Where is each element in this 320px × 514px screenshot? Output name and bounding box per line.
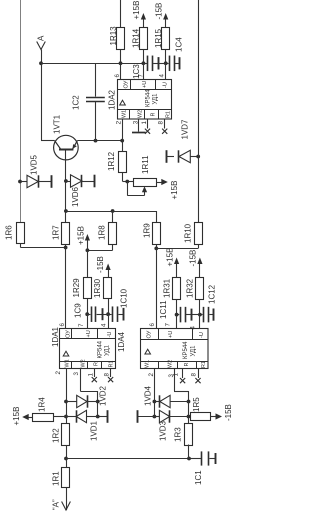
svg-text:-15В: -15В [96,256,105,273]
wire 1R30 to pin4 [108,299,110,314]
op-amp 1DA4 [141,329,209,370]
op-amp 1DA2 text KR544 [146,89,152,107]
svg-text:W1: W1 [145,360,151,368]
svg-text:1VD6: 1VD6 [71,186,80,207]
pin 8 1DA1 [104,373,111,377]
junction dot 1R3 bottom [187,457,191,461]
wire 1R15 bottom [165,50,167,63]
svg-text:R1: R1 [201,361,207,368]
svg-text:2: 2 [116,120,123,124]
junction dot rail/1VD5 [18,180,22,184]
transistor 1VT1 [54,135,79,160]
svg-text:1DA2: 1DA2 [108,89,117,110]
junction dot 1C3 left [142,61,146,65]
svg-text:1VD2: 1VD2 [99,385,108,406]
op-amp 1DA4 cell -U [199,332,205,338]
junction dot base/1VD6 [64,179,68,183]
wire to 1DA1 pin6 [65,248,67,329]
svg-text:+15В: +15В [12,407,21,426]
pin 4 1DA1 [101,323,108,327]
wire left rail [20,0,22,223]
junction dot VD1 left [64,415,68,419]
pin 2 1DA2 [116,120,123,124]
common bar (1C1) [215,453,217,464]
svg-text:1R8: 1R8 [98,225,107,240]
label 1VD7 [181,119,190,140]
junction dot 1R8 top [111,209,115,213]
svg-text:R: R [151,113,157,117]
label 1VD6 [71,186,80,207]
label 1R4 [38,397,47,412]
svg-text:1: 1 [173,373,180,377]
junction dot 1C2 bottom [94,139,98,143]
capacitor 1C2 [86,63,105,140]
svg-text:1R15: 1R15 [154,28,163,48]
resistor 1R32 [196,278,204,300]
wire base node line [66,211,157,223]
op-amp 1DA4 text UD1 [191,345,197,357]
svg-text:2: 2 [55,371,62,375]
label 1VT1 [53,114,62,134]
label 1R11 [141,155,150,174]
svg-text:W1: W1 [122,110,128,118]
junction dot VD2 left [64,400,68,404]
wire 1DA4 pin4 [199,315,201,329]
label -15V (1R32) [189,250,198,267]
op-amp 1DA2 [118,80,172,120]
svg-text:+U: +U [168,331,174,338]
wire +15V to 1R29 [87,250,89,277]
resistor 1R30 [104,278,112,299]
label 1DA1 [51,326,60,347]
junction dot pin6/nodeA [119,61,123,65]
pin 1 1DA2 [141,121,148,125]
op-amp 1DA4 cell W1 [145,360,151,368]
resistor 1R12 [119,152,127,173]
wire 1R9 bottom [156,245,158,248]
wire 1DA1 pin3 elbow [80,369,97,417]
svg-text:+15В: +15В [132,1,141,20]
pin 2 1DA4 [148,373,155,377]
svg-text:1C2: 1C2 [72,95,81,110]
common bar (1VD5 cathode) [51,175,53,188]
svg-text:КР544: КР544 [183,341,189,359]
resistor 1R4 [33,414,54,422]
svg-text:1VD3: 1VD3 [159,420,168,441]
wire 1DA4 pin2 lead [154,369,156,417]
svg-text:R1: R1 [109,361,115,368]
svg-text:7: 7 [78,323,85,327]
junction dot +15V node [86,248,90,252]
op-amp 1DA2 cell +U [142,81,148,88]
svg-text:1R7: 1R7 [52,225,61,240]
svg-text:6: 6 [149,323,156,327]
svg-text:1C11: 1C11 [159,300,168,319]
op-amp 1DA2 cell R [151,113,157,117]
label 1R31 [163,278,172,298]
junction dot 1R11 wiper node [125,180,129,184]
wire pin4 1DA1 [108,314,110,328]
resistor 1R9 [153,223,161,245]
label -15V (1R15) [155,3,164,20]
svg-text:1C1: 1C1 [194,470,203,485]
potentiometer 1R11 [134,179,157,187]
wire collector lead [41,140,55,142]
op-amp 1DA2 cell OU [124,80,130,88]
svg-text:1: 1 [88,373,95,377]
svg-text:1R4: 1R4 [38,397,47,412]
resistor 1R5 [191,413,211,421]
terminal A arrow [37,42,46,64]
svg-text:4: 4 [159,74,166,78]
svg-text:-15В: -15В [224,404,233,421]
label 1C3 [132,64,141,79]
wire bottom node line [66,458,189,460]
svg-text:W1: W1 [65,359,71,367]
diode 1VD6 [66,175,95,187]
resistor 1R7 [62,223,70,245]
common bar (1C3) [158,57,160,69]
junction dot VD3 left [153,415,157,419]
node A junction dot [39,61,43,65]
wire 1R12 top [122,141,124,152]
wire 1R32 to pin4 [199,299,201,314]
pin 7 1DA1 [78,323,85,327]
diode 1VD5 [20,175,51,187]
op-amp 1DA2 cell W2 [138,110,144,118]
label 1C4 [175,37,184,52]
label 1R10 [184,223,193,243]
pin 2 1DA1 [55,371,62,375]
svg-text:-U: -U [163,82,169,88]
pin 3 1DA2 [132,120,139,124]
label 1R12 [107,151,116,171]
label 1R30 [93,278,102,298]
supply -15V arrow (1R32) [197,258,202,278]
label +15V (1R29) [77,226,86,245]
label A [37,35,46,41]
common bar (1C4) [179,57,181,69]
svg-text:+U: +U [86,330,92,337]
svg-text:1R13: 1R13 [109,26,118,46]
pin 6 1DA1 [59,323,66,327]
pin8 1DA1 stub [108,369,113,383]
label -15V (1R5) [224,404,233,421]
pin8 1DA4 stub [195,369,200,383]
svg-text:R: R [184,363,190,367]
common bar (1C9) [102,308,104,320]
svg-text:+15В: +15В [77,226,86,245]
label 1R32 [186,278,195,298]
wire 1DA2 pin7 [143,63,145,79]
op-amp 1DA1 triangle [63,351,69,356]
op-amp 1DA4 cell +U [168,331,174,338]
junction dot 1R9/out [154,247,158,251]
supply +15V arrow (1R11) [161,179,168,185]
pin 1 1DA4 [173,373,180,377]
wire VD1 to common [98,416,108,418]
svg-text:1R11: 1R11 [141,155,150,174]
op-amp 1DA1 cell R1 [109,361,115,368]
capacitor 1C10 [108,306,123,322]
capacitor 1C12 [200,307,213,323]
svg-text:W2: W2 [81,359,87,367]
pin 7 1DA4 [165,323,172,327]
svg-text:1VD4: 1VD4 [144,385,153,406]
svg-text:8: 8 [158,121,165,125]
svg-text:1C10: 1C10 [120,288,129,308]
label 1R2 [52,428,61,443]
svg-text:1R6: 1R6 [5,225,14,240]
common bar (1VD6 cathode) [94,175,96,188]
capacitor 1C9 [87,306,108,322]
label 1DA4 [117,331,126,352]
gnd 1DA2 pin3 [132,119,146,133]
svg-text:1C12: 1C12 [208,284,217,304]
op-amp 1DA4 cell R [184,363,190,367]
supply -15V arrow (1R15) [163,13,168,28]
wire node A line [41,63,143,65]
wire emitter to C2/R12 [77,140,122,142]
junction dot 1C11 left [175,313,179,317]
diode 1VD1 [66,410,98,422]
pin1 1DA4 stub [180,369,185,383]
svg-text:1VD5: 1VD5 [30,154,39,175]
wire 1R8 top lead [112,211,114,223]
junction dot 1C4 left [164,61,168,65]
junction dot 1R7/out [64,246,68,250]
label 1C12 [208,284,217,304]
svg-text:-15В: -15В [189,250,198,267]
label 1VD2 [99,385,108,406]
svg-text:8: 8 [191,373,198,377]
supply +15V arrow (1R4) [22,414,32,420]
common bar (1C12) [213,309,215,321]
svg-text:1VD7: 1VD7 [181,119,190,140]
svg-text:4: 4 [190,326,197,330]
svg-text:1R31: 1R31 [163,278,172,298]
label 1R29 [72,278,81,298]
wire 1R11 right [156,182,162,184]
pin 4 1DA2 [159,74,166,78]
diode 1VD3 [154,410,188,422]
resistor 1R8 [109,223,117,245]
capacitor 1C4 [166,56,180,72]
wire 1R9-1R10 bottom [156,245,198,249]
svg-text:+U: +U [142,81,148,88]
diode 1VD4 [154,395,188,407]
wire 1R5 right [211,416,216,418]
label 1DA2 [108,89,117,110]
label 1VD4 [144,385,153,406]
wire 1R13 bottom [120,50,122,63]
common bar (VD1) [107,410,109,423]
capacitor 1C3 [143,56,165,72]
svg-text:ОУ: ОУ [66,330,72,338]
terminal A bottom [62,488,71,511]
pin 3 1DA4 [168,374,175,378]
junction dot 1C9 left [85,312,89,316]
op-amp 1DA1 cell OU [66,330,72,338]
wire VD right column [188,402,190,424]
svg-text:3: 3 [73,372,80,376]
wire 1DA2 pin4 [165,63,167,79]
label 1R7 [52,225,61,240]
op-amp 1DA1 cell +U [86,330,92,337]
svg-text:УД1: УД1 [105,344,111,356]
label 1C11 [159,300,168,319]
common bar (VD3) [137,410,139,423]
svg-text:1R12: 1R12 [107,151,116,171]
wire 1DA2 pin2 lead [122,119,124,141]
label 1R3 [174,427,183,442]
svg-text:-U: -U [199,332,205,338]
resistor 1R3 [185,424,193,446]
svg-text:ОУ: ОУ [147,330,153,338]
pin 7 1DA2 [138,74,145,78]
label 1C1 [194,470,203,485]
pin8 1DA2 stub [162,119,167,134]
svg-text:+15В: +15В [166,248,175,267]
wire 1R8 bottom to +15V node [87,245,112,251]
pin 8 1DA4 [191,373,198,377]
svg-text:“А”: “А” [52,499,61,510]
diode 1VD7 [166,150,198,162]
label 1VD1 [90,420,99,441]
svg-text:ОУ: ОУ [124,80,130,88]
junction dot VD1 right [96,415,100,419]
pin 8 1DA2 [158,121,165,125]
label 1C10 [120,288,129,308]
svg-text:1C4: 1C4 [175,37,184,52]
label 1VD5 [30,154,39,175]
svg-text:КР544: КР544 [98,340,104,358]
junction dot VD4 right [187,400,191,404]
label -15V (1R30) [96,256,105,273]
svg-text:+15В: +15В [170,181,179,200]
op-amp 1DA1 text KR544 [98,340,104,358]
label 1R1 [52,471,61,486]
supply -15V arrow (1R5) [216,413,223,419]
svg-text:A: A [37,35,46,41]
svg-text:1VD1: 1VD1 [90,420,99,441]
svg-text:-15В: -15В [155,3,164,20]
svg-text:-U: -U [107,332,113,338]
wire 1R31 to pin7 [176,299,178,314]
label A bottom [52,499,61,510]
capacitor 1C1 [189,451,215,465]
pin 6 1DA4 [149,323,156,327]
wire 1VT1 base lead [65,150,67,222]
label +15V (1R31) [166,248,175,267]
svg-text:1R10: 1R10 [184,223,193,243]
junction dot base/211 [64,209,68,213]
label 1R5 [192,397,201,412]
wire 1R2-1R1 [66,459,68,468]
label +15V (1R14) [132,1,141,20]
junction dot VD2 right [96,400,100,404]
common bar (1VD7) [166,150,168,163]
capacitor 1C11 [177,307,200,323]
supply +15V arrow (1R31) [174,258,179,278]
resistor 1R31 [173,278,181,300]
wire pin7 1DA1 [87,314,89,328]
op-amp 1DA2 cell R1 [166,111,172,118]
junction dot VD3 right [187,415,191,419]
svg-text:1R30: 1R30 [93,278,102,298]
wire A to collector [41,63,43,140]
label 1R14 [132,28,141,48]
op-amp 1DA4 cell R1 [201,361,207,368]
resistor 1R29 [84,278,92,299]
wire right rail [198,0,200,223]
op-amp 1DA4 triangle [145,349,151,354]
svg-text:1R14: 1R14 [132,28,141,48]
junction dot VD4 left [153,400,157,404]
pin1 1DA1 stub [92,369,97,383]
svg-text:R1: R1 [166,111,172,118]
wire 1R6 bottom to 1R7 node [21,244,66,248]
svg-text:1R3: 1R3 [174,427,183,442]
junction dot 1C11 right [198,313,202,317]
svg-text:7: 7 [165,323,172,327]
resistor 1R13 [117,28,125,50]
op-amp 1DA1 [59,328,115,368]
common bar (1C10) [123,308,125,321]
op-amp 1DA2 cell -U [163,82,169,88]
svg-text:УД1: УД1 [191,345,197,357]
op-amp 1DA1 cell -U [107,332,113,338]
label 1R6 [5,225,14,240]
supply +15V arrow (1R14) [141,13,146,28]
wire 1DA2 pin6 [120,63,122,79]
wire 1R29 to pin7 [87,299,89,314]
op-amp 1DA1 text UD1 [105,344,111,356]
op-amp 1DA2 cell W1 [122,110,128,118]
wire 1DA4 pin7 [176,315,178,329]
svg-text:1DA4: 1DA4 [117,331,126,352]
svg-text:1R29: 1R29 [72,278,81,298]
label 1R8 [98,225,107,240]
supply -15V arrow (1R30) [106,264,111,278]
op-amp 1DA4 text KR544 [183,341,189,359]
op-amp 1DA2 triangle [120,100,126,105]
label 1C2 [72,95,81,110]
resistor 1R2 [62,424,70,446]
diode 1VD2 [66,395,98,407]
junction dot bottom node [64,457,68,461]
wire 1R12 bottom [123,173,134,182]
label 1R13 [109,26,118,46]
resistor 1R14 [140,28,148,50]
svg-text:УД1: УД1 [153,93,159,105]
svg-text:1R32: 1R32 [186,278,195,298]
label 1C9 [74,303,83,318]
wire 1R7 bottom [65,245,67,248]
label +15V (1R11) [170,181,179,200]
resistor 1R1 [62,468,70,488]
op-amp 1DA1 cell W1 [65,359,71,367]
svg-text:1R9: 1R9 [143,223,152,238]
svg-text:1R1: 1R1 [52,471,61,486]
svg-text:8: 8 [104,373,111,377]
op-amp 1DA4 cell W2 [168,360,174,368]
svg-text:1DA1: 1DA1 [51,326,60,347]
wire 1R13 top [120,0,122,28]
wire 1R3 bottom [188,445,190,459]
pin 3 1DA1 [73,372,80,376]
svg-text:R: R [94,362,100,366]
